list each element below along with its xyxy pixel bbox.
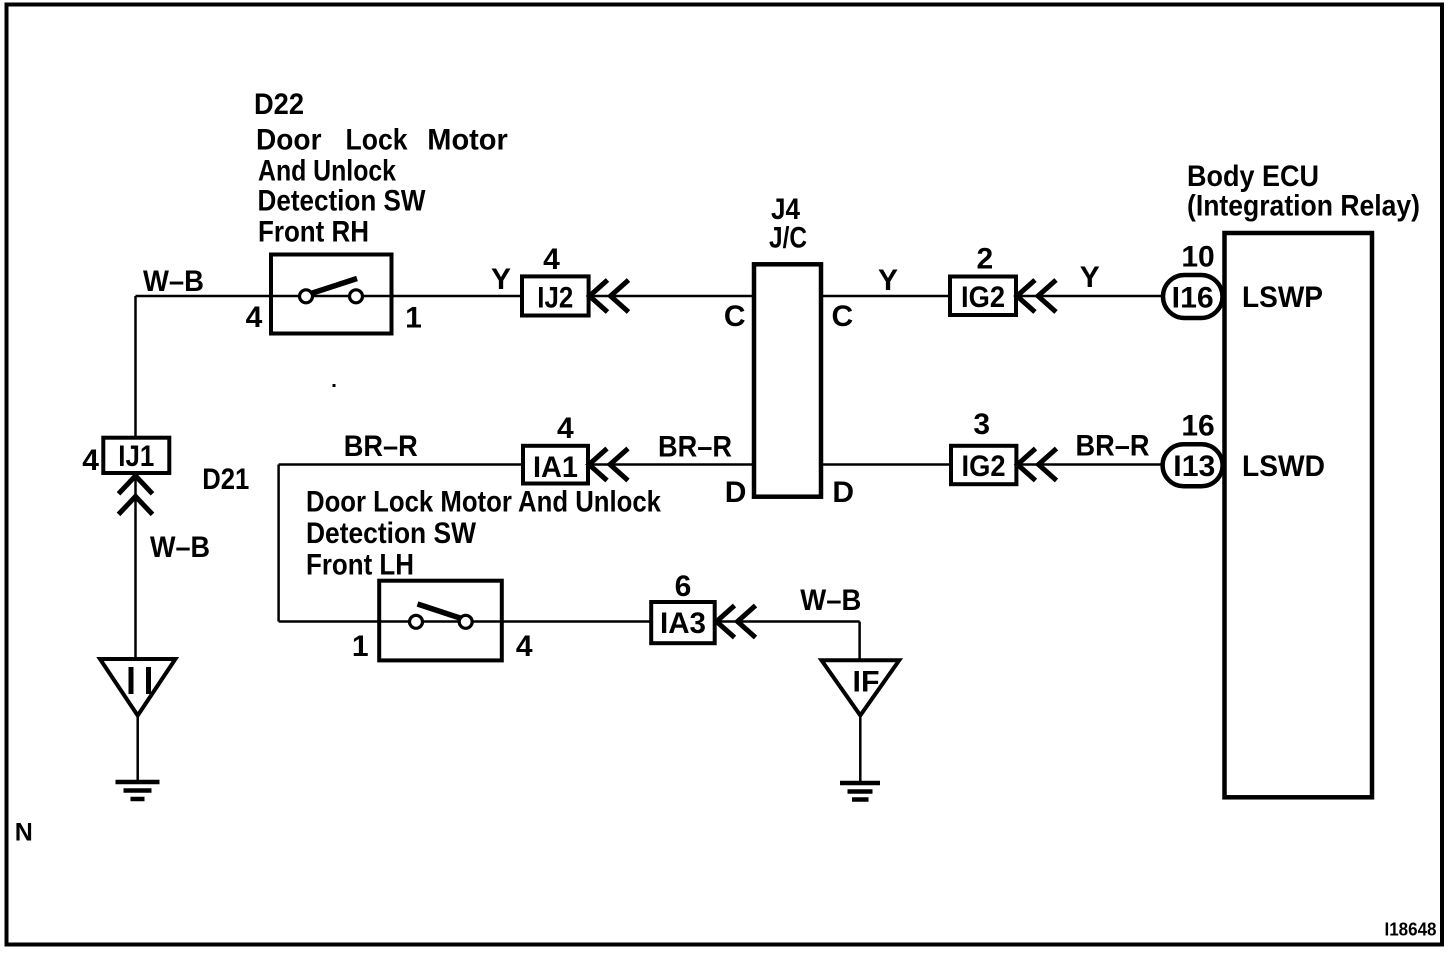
svg-text:IA3: IA3 [660,607,706,640]
svg-text:(Integration Relay): (Integration Relay) [1187,190,1420,223]
svg-text:Motor: Motor [427,124,508,157]
svg-text:6: 6 [675,570,692,603]
svg-text:Y: Y [878,264,898,297]
svg-text:I13: I13 [1173,450,1215,483]
svg-text:W–B: W–B [800,584,861,617]
svg-text:2: 2 [977,243,994,276]
svg-text:Door Lock Motor And Unlock: Door Lock Motor And Unlock [306,486,661,519]
svg-text:IG2: IG2 [962,450,1006,483]
svg-text:LSWD: LSWD [1242,450,1325,483]
svg-text:J/C: J/C [769,222,807,255]
svg-text:IJ2: IJ2 [537,281,573,314]
svg-text:IJ1: IJ1 [118,440,154,473]
svg-text:BR–R: BR–R [344,430,418,463]
svg-text:LSWP: LSWP [1242,281,1323,314]
svg-text:D21: D21 [202,463,249,496]
svg-text:IG2: IG2 [961,281,1005,314]
svg-text:W–B: W–B [150,531,210,564]
svg-text:Y: Y [491,263,511,296]
svg-text:4: 4 [82,444,99,477]
svg-text:4: 4 [516,630,533,663]
svg-text:Y: Y [1080,261,1100,294]
svg-text:D: D [832,476,854,509]
svg-text:W–B: W–B [143,265,204,298]
svg-text:Detection SW: Detection SW [258,185,427,218]
svg-text:C: C [831,300,853,333]
svg-text:3: 3 [973,408,990,441]
svg-text:1: 1 [405,302,422,335]
svg-text:D22: D22 [254,88,304,121]
svg-text:IF: IF [853,665,880,698]
svg-text:4: 4 [246,301,263,334]
svg-text:10: 10 [1181,241,1214,274]
svg-text:IA1: IA1 [533,451,578,484]
svg-text:N: N [15,818,33,846]
svg-text:Lock: Lock [346,124,408,157]
svg-text:Front LH: Front LH [306,549,414,582]
svg-text:Body ECU: Body ECU [1187,160,1319,193]
svg-text:16: 16 [1181,409,1214,442]
svg-text:C: C [724,300,746,333]
svg-text:D: D [725,476,747,509]
svg-text:Front RH: Front RH [258,215,369,248]
svg-text:BR–R: BR–R [1076,430,1150,463]
svg-text:4: 4 [543,243,560,276]
svg-text:I16: I16 [1172,282,1214,315]
svg-text:Detection SW: Detection SW [306,517,477,550]
svg-text:And Unlock: And Unlock [258,154,396,187]
svg-text:1: 1 [352,630,369,663]
svg-text:I18648: I18648 [1385,920,1437,940]
svg-text:Door: Door [256,124,322,157]
svg-text:BR–R: BR–R [658,431,732,464]
svg-text:4: 4 [557,412,574,445]
